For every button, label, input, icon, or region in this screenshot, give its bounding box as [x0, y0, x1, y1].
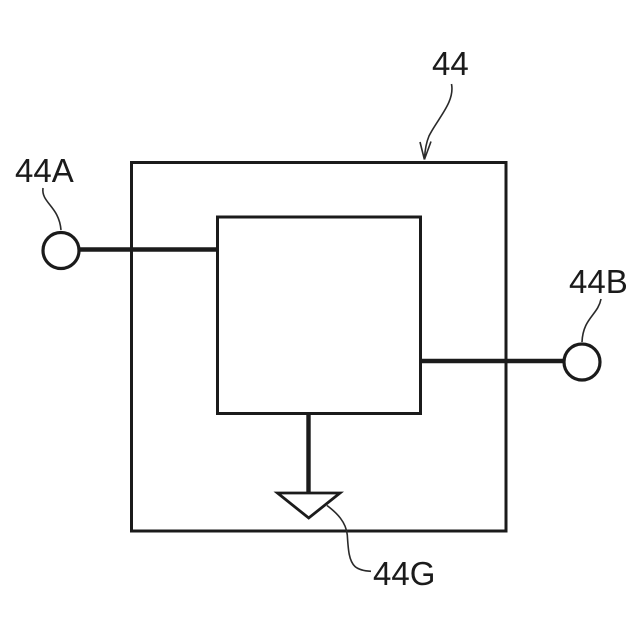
leader line to terminal 44B — [582, 299, 601, 342]
wire from inner block to terminal 44B — [420, 359, 579, 363]
outer box 44 — [132, 163, 507, 532]
ground symbol 44G — [278, 493, 341, 518]
leader arrow to outer box 44 — [420, 84, 452, 160]
leader line to terminal 44A — [43, 188, 61, 230]
svg-text:44G: 44G — [373, 555, 435, 592]
svg-text:44A: 44A — [15, 152, 74, 189]
svg-text:44B: 44B — [569, 263, 628, 300]
terminal 44B — [564, 344, 600, 380]
leader line to ground 44G — [327, 506, 371, 572]
wire from inner block to ground — [306, 412, 310, 492]
inner block — [218, 217, 421, 414]
wire from terminal 44A to inner block — [63, 247, 219, 251]
terminal 44A — [43, 233, 79, 269]
svg-text:44: 44 — [432, 45, 469, 82]
